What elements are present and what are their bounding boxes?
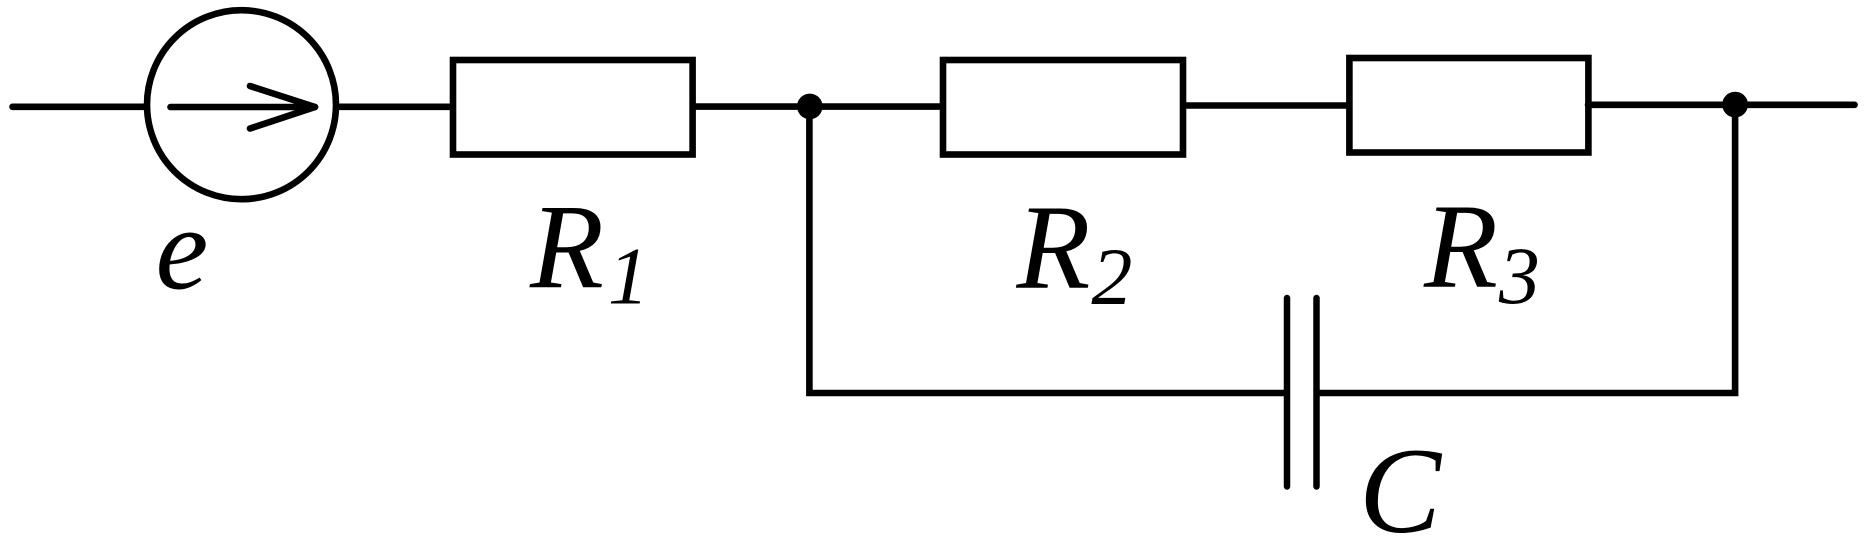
resistor R2	[943, 60, 1183, 155]
svg-text:R1: R1	[529, 180, 649, 322]
source e (circle)	[147, 10, 336, 199]
source arrow head	[250, 86, 315, 129]
capacitor C plate right	[1313, 298, 1320, 487]
wire R1 to node A to R2	[692, 103, 943, 110]
wire node A down and along bottom to capacitor	[809, 107, 1284, 394]
resistor R1	[453, 60, 693, 155]
source arrow shaft	[171, 104, 316, 111]
capacitor C plate left	[1284, 298, 1291, 487]
wire R3 to right end	[1588, 102, 1855, 109]
svg-text:R3: R3	[1423, 180, 1540, 322]
svg-text:C: C	[1359, 422, 1443, 543]
svg-text:R2: R2	[1016, 181, 1133, 323]
svg-text:e: e	[156, 183, 209, 315]
wire left lead	[13, 104, 147, 111]
wire node B down and along bottom to capacitor	[1320, 105, 1736, 393]
wire source to R1	[336, 104, 452, 111]
node B (junction dot)	[1722, 92, 1748, 118]
node A (junction dot)	[797, 94, 823, 120]
resistor R3	[1349, 58, 1588, 153]
wire R2 to R3	[1183, 102, 1349, 109]
